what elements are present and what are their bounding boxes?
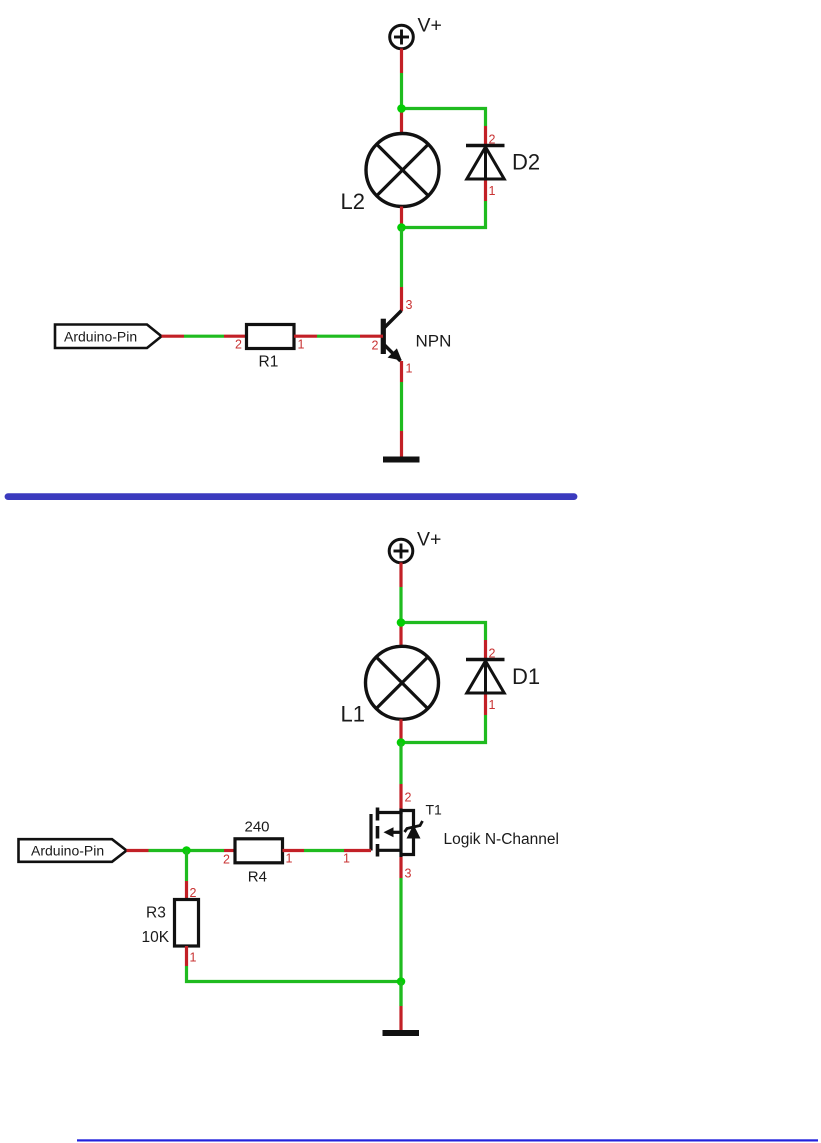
power V+ supply symbol (bottom)	[389, 529, 441, 563]
wire green node C to diode D1 branch	[401, 623, 486, 641]
svg-text:3: 3	[406, 298, 413, 312]
wire green source to node E	[399, 878, 402, 1006]
wire red drain lead pin 2	[399, 784, 402, 809]
diode D2	[466, 146, 505, 180]
svg-text:2: 2	[223, 853, 230, 867]
wire red lamp L1 bottom lead	[399, 719, 402, 742]
ground symbol	[383, 457, 420, 463]
ground symbol (bottom)	[383, 1030, 420, 1036]
wire red base lead pin 2	[360, 335, 383, 338]
node A junction dot	[397, 104, 406, 113]
wire red ground lead (bottom)	[399, 1006, 402, 1031]
wire green diode D1 to node D	[401, 715, 486, 743]
net flag Arduino-Pin (top)	[55, 325, 162, 349]
wire red from V+	[400, 49, 403, 74]
svg-text:Arduino-Pin: Arduino-Pin	[31, 843, 104, 859]
wire red ground lead	[400, 431, 403, 457]
wire red flag lead	[162, 335, 185, 338]
node F junction dot	[182, 846, 191, 855]
svg-text:10K: 10K	[142, 929, 170, 946]
wire green R1 to base	[317, 335, 360, 338]
wire red R1 pin 2 lead	[224, 335, 246, 338]
svg-text:D1: D1	[512, 664, 540, 689]
node E junction dot	[397, 977, 406, 986]
svg-text:L2: L2	[341, 189, 365, 214]
wire red gate lead pin 1	[344, 849, 371, 852]
wire green node F down to R3	[185, 851, 188, 882]
resistor R3	[175, 900, 199, 947]
wire red from V+ (bottom)	[399, 563, 402, 588]
svg-text:240: 240	[245, 819, 270, 836]
wire red diode D2 pin 2 lead	[484, 126, 487, 146]
wire red lamp L2 bottom lead	[400, 207, 403, 228]
lamp L1	[366, 646, 439, 719]
wire red flag lead (bottom)	[127, 849, 149, 852]
wire red node C to lamp L1	[399, 623, 402, 648]
svg-text:R4: R4	[248, 868, 267, 885]
node B junction dot	[397, 223, 406, 232]
svg-text:R3: R3	[146, 905, 166, 922]
wire green flag to node F	[149, 849, 187, 852]
svg-text:NPN: NPN	[416, 332, 452, 351]
wire red diode D1 pin 1 lead	[484, 695, 487, 716]
svg-text:2: 2	[405, 791, 412, 805]
wire green node E to ground lead	[399, 982, 402, 1007]
wire green flag to R1	[184, 335, 224, 338]
wire red R3 pin 1 lead	[185, 946, 188, 966]
svg-text:D2: D2	[512, 149, 540, 174]
wire red collector lead pin 3	[400, 287, 403, 311]
wire red source lead pin 3	[399, 857, 402, 878]
svg-text:1: 1	[286, 852, 293, 866]
wire red diode D1 pin 2 lead	[484, 640, 487, 660]
wire red node to lamp L2	[400, 109, 403, 135]
svg-text:R1: R1	[259, 354, 279, 371]
wire red emitter lead	[400, 361, 403, 382]
svg-text:2: 2	[235, 338, 242, 352]
svg-text:Logik N-Channel: Logik N-Channel	[444, 831, 559, 848]
svg-text:1: 1	[406, 362, 413, 376]
bottom blue rule	[77, 1139, 818, 1141]
power V+ supply symbol	[390, 15, 442, 49]
wire green node D to drain	[399, 743, 402, 785]
resistor R4	[235, 839, 283, 863]
transistor Q1 NPN	[383, 311, 401, 362]
node C junction dot	[397, 618, 406, 627]
svg-text:Arduino-Pin: Arduino-Pin	[64, 329, 137, 345]
wire red R4 pin 1 lead	[283, 849, 305, 852]
wire green node B to collector	[400, 228, 403, 288]
net flag Arduino-Pin (bottom)	[19, 839, 127, 862]
wire green node F to R4	[187, 849, 225, 852]
svg-text:1: 1	[489, 184, 496, 198]
svg-text:1: 1	[298, 338, 305, 352]
wire green emitter to ground	[400, 382, 403, 431]
svg-text:1: 1	[343, 852, 350, 866]
wire red R3 pin 2 lead	[185, 881, 188, 900]
wire green R3 to node E	[187, 966, 402, 982]
resistor R1	[247, 325, 295, 349]
transistor T1 MOSFET	[371, 808, 423, 858]
lamp L2	[366, 134, 439, 207]
node D junction dot	[397, 738, 406, 747]
svg-text:1: 1	[190, 951, 197, 965]
wire red R4 pin 2 lead	[224, 849, 235, 852]
separator blue thick line	[8, 493, 574, 500]
wire green node to diode branch	[402, 109, 486, 127]
wire red diode D2 pin 1 lead	[484, 181, 487, 202]
diode D1	[466, 660, 505, 694]
wire green to node C	[399, 587, 402, 623]
svg-text:L1: L1	[341, 702, 365, 727]
wire red R1 pin 1 lead	[294, 335, 317, 338]
svg-text:T1: T1	[426, 802, 443, 818]
wire green to node	[400, 73, 403, 109]
wire green R4 to gate	[304, 849, 344, 852]
wire green diode bottom to node B	[402, 201, 486, 228]
svg-text:2: 2	[372, 339, 379, 353]
svg-text:1: 1	[489, 698, 496, 712]
svg-text:V+: V+	[418, 15, 442, 37]
svg-text:3: 3	[405, 867, 412, 881]
svg-text:V+: V+	[417, 529, 441, 551]
